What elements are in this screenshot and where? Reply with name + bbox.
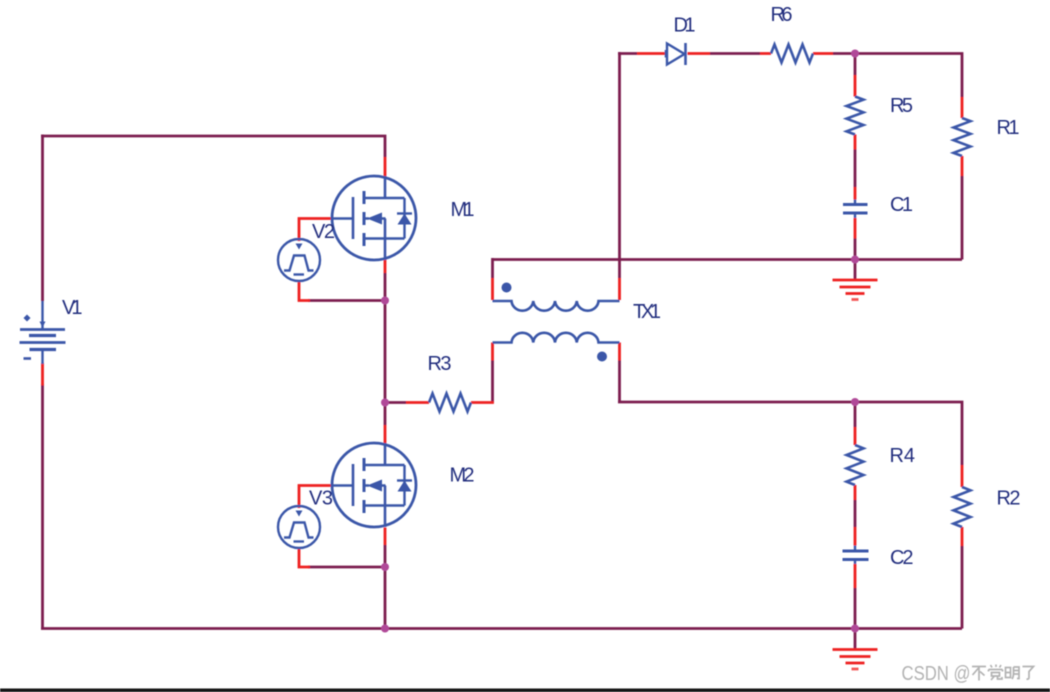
svg-text:V2: V2 bbox=[312, 221, 335, 243]
svg-text:V3: V3 bbox=[309, 488, 333, 510]
svg-text:M1: M1 bbox=[451, 199, 475, 221]
svg-text:R6: R6 bbox=[771, 4, 793, 26]
svg-text:TX1: TX1 bbox=[633, 301, 661, 323]
svg-text:C1: C1 bbox=[890, 194, 913, 216]
svg-text:C2: C2 bbox=[890, 547, 914, 569]
svg-text:R3: R3 bbox=[428, 353, 452, 375]
svg-text:R4: R4 bbox=[890, 445, 916, 467]
svg-text:R1: R1 bbox=[997, 117, 1020, 139]
svg-text:D1: D1 bbox=[674, 15, 696, 37]
svg-text:V1: V1 bbox=[62, 297, 83, 319]
svg-text:R5: R5 bbox=[890, 95, 913, 117]
svg-text:M2: M2 bbox=[450, 465, 475, 487]
svg-text:R2: R2 bbox=[997, 488, 1021, 510]
svg-text:CSDN @: CSDN @ bbox=[902, 663, 971, 685]
